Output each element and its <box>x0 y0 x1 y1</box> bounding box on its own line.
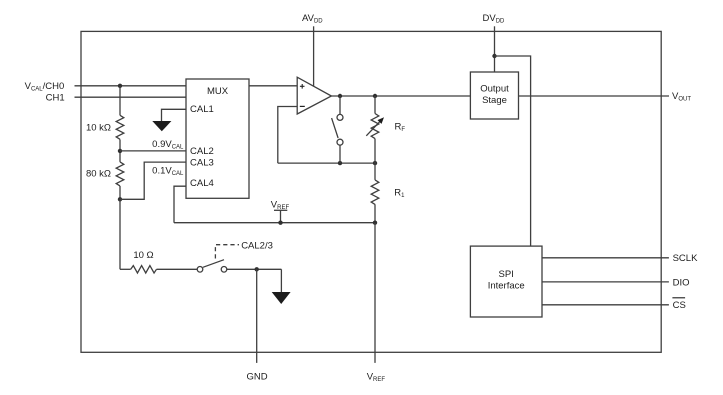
label op-amp minus <box>300 105 305 107</box>
wire op-amp output <box>331 95 470 97</box>
wire RF bottom stub <box>374 139 376 164</box>
svg-text:RF: RF <box>395 122 406 134</box>
op-amp U2 <box>297 77 331 114</box>
border frame <box>81 31 661 352</box>
svg-text:0.9VCAL: 0.9VCAL <box>152 139 184 151</box>
node DVDD branch <box>492 54 496 58</box>
node R1 VREF rail <box>373 221 377 225</box>
svg-text:80 kΩ: 80 kΩ <box>86 169 111 180</box>
wire 10k to tap <box>119 139 121 162</box>
wire feedback bottom <box>278 162 375 164</box>
wire 10 Ohm left stub <box>120 268 131 270</box>
svg-text:0.1VCAL: 0.1VCAL <box>152 165 184 177</box>
node feedback R1 <box>373 161 377 165</box>
resistor 10 kOhm <box>116 115 124 139</box>
arrowhead ground arrow <box>272 292 291 304</box>
svg-text:CAL1: CAL1 <box>190 104 214 115</box>
svg-text:Stage: Stage <box>482 95 507 106</box>
svg-text:DIO: DIO <box>673 277 690 288</box>
svg-text:CH1: CH1 <box>46 93 65 104</box>
dashed control CAL2/3 <box>215 245 239 259</box>
svg-text:Interface: Interface <box>488 281 525 292</box>
svg-text:CAL3: CAL3 <box>190 158 214 169</box>
svg-text:VREF: VREF <box>367 372 386 384</box>
output stage box U3 <box>470 72 518 119</box>
wire 0.9VCAL to CAL2 <box>120 150 186 152</box>
svg-text:DVDD: DVDD <box>483 13 506 25</box>
wire VREF symbol stem <box>280 210 282 222</box>
wire VCAL/CH0 input <box>75 85 187 87</box>
switch S1 blade <box>332 118 339 138</box>
switch S2 blade <box>203 260 224 268</box>
svg-text:SCLK: SCLK <box>673 253 698 264</box>
wire MUX out to op-amp <box>249 85 297 87</box>
switch S1 top contact <box>337 114 343 120</box>
wire 80k bottom <box>119 186 121 199</box>
VREF symbol bar <box>274 209 287 211</box>
wire RF top stub <box>374 96 376 114</box>
resistor R1 <box>371 180 379 205</box>
wire 0.1VCAL to CAL3 <box>120 162 186 199</box>
node 0.9VCAL tap <box>118 149 122 153</box>
svg-text:VREF: VREF <box>271 200 290 212</box>
wire VREF terminal <box>374 223 376 363</box>
svg-text:MUX: MUX <box>207 86 229 97</box>
svg-text:CS: CS <box>673 300 686 311</box>
svg-text:AVDD: AVDD <box>302 13 323 25</box>
node output switch tap <box>338 94 342 98</box>
svg-text:10 Ω: 10 Ω <box>133 250 153 261</box>
svg-text:CAL2: CAL2 <box>190 146 214 157</box>
spi interface box U4 <box>470 246 542 317</box>
wire AVDD supply <box>313 26 315 86</box>
mux box U1 <box>186 79 249 198</box>
svg-text:GND: GND <box>246 372 267 383</box>
wire VOUT <box>519 95 670 97</box>
node output RF tap <box>373 94 377 98</box>
wire divider to 10 Ohm <box>119 199 121 269</box>
wire switch S2 to GND <box>227 268 282 270</box>
svg-text:CAL4: CAL4 <box>190 178 214 189</box>
arrow RF wiper <box>366 121 380 136</box>
wire SCLK <box>542 257 669 259</box>
resistor 10 Ohm <box>131 266 157 273</box>
wire CAL4 stub <box>174 186 186 223</box>
svg-text:Output: Output <box>480 84 509 95</box>
node junction VCAL/CH0 divider tap <box>118 84 122 88</box>
wire CS <box>542 304 669 306</box>
wire DVDD to SPI <box>495 56 531 246</box>
switch S2 left contact <box>197 267 203 273</box>
wire switch S1 bottom stub <box>339 145 341 163</box>
arrowhead CAL1 down <box>152 121 171 131</box>
wire CH1 input <box>75 96 187 98</box>
wire DIO <box>542 281 669 283</box>
wire VREF rail <box>174 222 375 224</box>
svg-text:VOUT: VOUT <box>672 91 691 103</box>
wire switch S1 top stub <box>339 96 341 114</box>
svg-text:10 kΩ: 10 kΩ <box>86 123 111 134</box>
wire arrow stub <box>280 269 282 292</box>
wire R1 bottom stub <box>374 204 376 222</box>
resistor RF variable <box>371 114 379 139</box>
svg-text:SPI: SPI <box>499 269 514 280</box>
wire R1 top stub <box>374 163 376 180</box>
svg-text:CAL2/3: CAL2/3 <box>241 240 273 251</box>
wire divider top <box>119 86 121 116</box>
node feedback switch <box>338 161 342 165</box>
node VREF rail tap <box>278 221 282 225</box>
wire DVDD supply <box>494 26 496 72</box>
wire 10 Ohm to switch <box>157 268 198 270</box>
label op-amp plus <box>300 84 305 89</box>
wire inverting input <box>278 107 297 164</box>
svg-text:R1: R1 <box>394 188 405 200</box>
node 0.1VCAL tap <box>118 197 122 201</box>
switch S2 right contact <box>221 267 227 273</box>
svg-text:VCAL/CH0: VCAL/CH0 <box>25 81 65 93</box>
wire GND terminal <box>256 269 258 363</box>
arrowhead RF wiper <box>378 117 385 124</box>
resistor 80 kOhm <box>116 162 124 186</box>
switch S1 bottom contact <box>337 139 343 145</box>
wire CAL1 stub <box>162 109 187 121</box>
node GND tap <box>255 267 259 271</box>
